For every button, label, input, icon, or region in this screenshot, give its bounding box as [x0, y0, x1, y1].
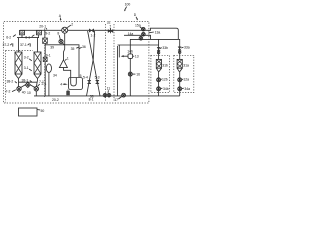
- valve 12a: [178, 77, 189, 81]
- indoor unit 30a dashed box: [174, 55, 194, 92]
- svg-text:34: 34: [53, 74, 57, 78]
- svg-text:3-1: 3-1: [24, 66, 29, 70]
- header valve 17: [114, 93, 125, 102]
- svg-text:38-2: 38-2: [7, 80, 14, 84]
- label 38-1: [22, 79, 32, 83]
- svg-text:16: 16: [136, 72, 140, 76]
- dashed box 32 right edge: [113, 24, 115, 101]
- compressor suction pipe: [64, 68, 71, 78]
- accumulator 2-1: [46, 64, 51, 96]
- valve 13: [127, 49, 138, 58]
- compressor discharge pipe: [64, 33, 65, 60]
- label 6-1: [25, 35, 34, 40]
- service valve 14a: [128, 32, 146, 36]
- label 37-2: [3, 43, 13, 47]
- expansion valve 1-2: [89, 29, 95, 38]
- crossover pipe left: [88, 31, 100, 96]
- solenoid valve 9-2: [43, 30, 51, 96]
- svg-text:5-4: 5-4: [83, 75, 88, 79]
- valve 34b: [157, 87, 169, 91]
- valve 7-1: [34, 87, 38, 96]
- svg-text:17: 17: [114, 98, 118, 102]
- indoor unit 30b dashed box: [151, 55, 170, 92]
- svg-text:5: 5: [80, 74, 82, 78]
- svg-text:31a: 31a: [183, 63, 189, 67]
- fan box 30 left: [20, 30, 25, 35]
- svg-text:39: 39: [50, 46, 54, 50]
- outdoor heat exchanger 3-1: [34, 52, 41, 87]
- svg-text:2-1: 2-1: [42, 82, 47, 86]
- svg-text:35: 35: [71, 47, 75, 51]
- svg-text:100: 100: [125, 2, 131, 6]
- service valve 15a: [135, 24, 145, 32]
- subcool circuit arrow: [121, 55, 128, 57]
- valve 16: [128, 72, 140, 76]
- bypass pipe: [45, 45, 79, 78]
- svg-text:36: 36: [82, 45, 86, 49]
- svg-text:31b: 31b: [162, 63, 168, 67]
- expansion valve 33a: [178, 45, 190, 50]
- svg-text:30: 30: [20, 31, 24, 35]
- inner dashed box 20-1: [6, 29, 45, 103]
- HX top pipes: [17, 35, 39, 52]
- valve 12b: [157, 77, 168, 81]
- svg-text:2: 2: [71, 23, 73, 27]
- valve 7: [108, 24, 113, 33]
- cross pipe under HX: [19, 81, 38, 83]
- svg-text:20-1: 20-1: [39, 25, 46, 29]
- pipe 2 (gas): [124, 35, 151, 39]
- svg-text:9-2: 9-2: [45, 32, 50, 36]
- label 37-1: [20, 43, 30, 47]
- sensor a: [179, 51, 181, 53]
- valve 34a: [178, 87, 190, 91]
- dashed box 32 left edge: [105, 24, 107, 101]
- svg-text:3-2: 3-2: [24, 56, 29, 60]
- svg-text:20-2: 20-2: [52, 98, 59, 102]
- node D marker: [134, 13, 138, 20]
- label 7-2: [6, 89, 16, 93]
- svg-text:9-1: 9-1: [46, 53, 51, 57]
- valve 7-2: [17, 87, 21, 93]
- header valves 11: [103, 87, 111, 97]
- svg-text:34b: 34b: [163, 87, 169, 91]
- svg-text:33a: 33a: [184, 45, 190, 49]
- label 6-2: [6, 35, 16, 40]
- svg-text:11: 11: [107, 87, 111, 91]
- svg-text:12a: 12a: [183, 77, 189, 81]
- pipe 4 to unit b: [118, 44, 159, 46]
- expansion valve 5-3: [95, 75, 100, 83]
- pipe 3 (liquid) to indoor: [130, 38, 178, 40]
- svg-text:7-2: 7-2: [6, 89, 11, 93]
- compressor 1: [59, 56, 69, 67]
- four-way valve 2: [62, 23, 74, 34]
- svg-text:10: 10: [27, 91, 31, 95]
- svg-text:40: 40: [22, 91, 26, 95]
- fan box 30 right: [36, 30, 41, 35]
- svg-text:13a: 13a: [155, 30, 161, 34]
- sensor b: [157, 51, 159, 53]
- liquid line vertical: [117, 46, 119, 96]
- expansion valve 33b: [157, 46, 168, 51]
- junction block: [66, 91, 70, 95]
- svg-text:30: 30: [37, 31, 41, 35]
- top header pipe: [20, 28, 178, 39]
- svg-text:34a: 34a: [184, 87, 190, 91]
- label 36: [79, 45, 86, 49]
- svg-text:8-1: 8-1: [89, 98, 94, 102]
- valve 8: [57, 32, 64, 45]
- label 4: [60, 83, 68, 87]
- bottom header pipe: [34, 95, 180, 97]
- svg-text:6-2: 6-2: [6, 35, 11, 39]
- label 7-1: [38, 80, 44, 86]
- svg-text:1: 1: [67, 56, 69, 60]
- svg-text:8: 8: [57, 32, 59, 36]
- svg-text:5-3: 5-3: [95, 75, 100, 79]
- indoor heat exchanger 31b: [156, 59, 168, 71]
- svg-text:4: 4: [60, 83, 62, 87]
- svg-text:14a: 14a: [128, 32, 134, 36]
- internal heat exchanger 4: [69, 78, 83, 90]
- outdoor heat exchanger 3-2: [15, 52, 22, 87]
- indoor heat exchanger 31a: [177, 59, 189, 71]
- svg-text:14b: 14b: [127, 49, 133, 53]
- label 100: [124, 2, 130, 11]
- node A marker: [59, 14, 62, 21]
- svg-text:12b: 12b: [162, 77, 168, 81]
- controller 50: [19, 108, 45, 116]
- label 9-1: [43, 53, 51, 61]
- expansion valve 5-4: [83, 75, 91, 83]
- receiver line: [129, 39, 131, 96]
- svg-text:13: 13: [135, 54, 139, 58]
- svg-text:37-2: 37-2: [3, 43, 10, 47]
- outdoor unit dashed enclosure: [4, 22, 149, 104]
- svg-text:33b: 33b: [162, 46, 168, 50]
- label 38-2: [7, 80, 17, 84]
- svg-text:50: 50: [41, 109, 45, 113]
- svg-text:37-1: 37-1: [20, 43, 27, 47]
- diamond valve 40: [21, 82, 35, 87]
- crossover pipe right: [87, 31, 95, 96]
- service valve 13a: [139, 30, 160, 40]
